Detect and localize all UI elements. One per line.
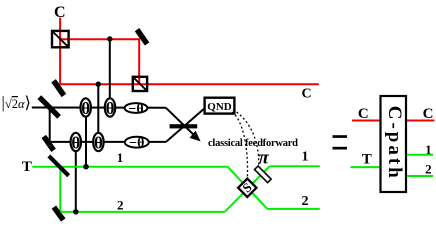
wire: phase link theta1 to T line: [85, 108, 87, 167]
wire: green output 1 of gate: [407, 154, 433, 156]
mirror M2 on red corner: [51, 79, 66, 97]
wire: red MZ top arm: [60, 38, 139, 40]
svg-text:classical feedforward: classical feedforward: [208, 138, 298, 149]
QND box: [205, 98, 235, 114]
svg-text:C-path: C-path: [384, 106, 405, 178]
svg-text:2: 2: [302, 194, 309, 209]
mirror M1 top-right of MZ: [135, 28, 150, 45]
wire: path2 diagonal to QND: [166, 108, 205, 142]
beam splitter PBS1 (square with diagonal): [52, 31, 69, 47]
mirror M3: [42, 135, 56, 152]
svg-text:QND: QND: [207, 101, 232, 113]
switch S diamond: [238, 179, 256, 197]
wire: red C out of gate: [407, 120, 435, 122]
svg-text:T: T: [22, 159, 32, 175]
wire: path-2 beam line: [50, 141, 166, 143]
svg-text:−θ: −θ: [128, 102, 143, 117]
svg-text:T: T: [362, 152, 372, 168]
wire: green crossing diagonal up: [225, 166, 270, 212]
beam splitter BS T (long thin diagonal): [47, 154, 70, 177]
svg-text:2: 2: [425, 161, 432, 176]
wire: red MZ right vertical: [138, 38, 140, 84]
C-path gate box: [381, 96, 407, 192]
svg-text:−θ: −θ: [129, 136, 144, 151]
wire: phase link theta2 to path 2 line: [75, 142, 77, 212]
svg-text:2: 2: [117, 198, 124, 213]
node: junction dot on C output line: [96, 82, 101, 87]
wire: control line from C to path-2 theta: [97, 84, 99, 142]
svg-text:π: π: [258, 148, 269, 169]
phase shifter theta row2 b: [93, 133, 103, 153]
dotted feedforward curve to pi shifter: [233, 110, 259, 167]
wire: green T reflected down: [59, 167, 61, 212]
wire: red C output line: [60, 83, 319, 85]
wire: green line 2 right: [267, 208, 320, 210]
phase shifter minus-theta row2: [125, 136, 149, 151]
svg-text:θ: θ: [94, 134, 103, 153]
node: junction dot on MZ top arm: [107, 36, 112, 41]
equals sign: [333, 135, 348, 149]
svg-text:C: C: [301, 87, 311, 102]
phase shifter theta row1 b: [105, 98, 115, 118]
wire: red C into gate: [352, 120, 380, 122]
wire: red C input vertical (MZ left arm): [59, 18, 61, 85]
phase shifter theta row2 a: [71, 133, 81, 153]
mirror M4: [52, 205, 66, 221]
wire: green crossing diagonal down: [228, 167, 268, 209]
wire: green line 1 right: [270, 165, 320, 167]
svg-text:1: 1: [117, 150, 124, 165]
phase shifter minus-theta row1: [125, 102, 148, 117]
wire: path-1 beam line: [32, 107, 166, 109]
beam combiner bar: [170, 124, 198, 128]
wire: control line from C to path-1 theta: [109, 39, 111, 108]
wire: green line 2 left: [60, 211, 224, 213]
wire: green T / line 1 left: [32, 166, 227, 168]
beam splitter PBS2 (square with diagonal): [133, 77, 147, 91]
wire: reflected beam down from BS: [49, 108, 51, 141]
node: dot T line to theta: [83, 164, 89, 170]
arrow head (dump port): [190, 131, 201, 142]
wire: green T into gate: [351, 166, 380, 168]
phase shifter theta row1 a: [81, 98, 91, 118]
phase shifter pi: [255, 166, 272, 183]
svg-text:θ: θ: [106, 99, 115, 118]
svg-text:θ: θ: [71, 134, 80, 153]
svg-text:θ: θ: [81, 99, 90, 118]
svg-text:C: C: [54, 4, 66, 21]
beam splitter BS alpha (thick diagonal): [37, 95, 60, 118]
wire: green output 2 of gate: [407, 175, 433, 177]
node: dot line2 to theta: [73, 209, 79, 215]
dotted feedforward curve to switch: [232, 112, 248, 177]
svg-text:1: 1: [302, 149, 309, 164]
wire: path1 diagonal into combiner: [166, 108, 197, 138]
